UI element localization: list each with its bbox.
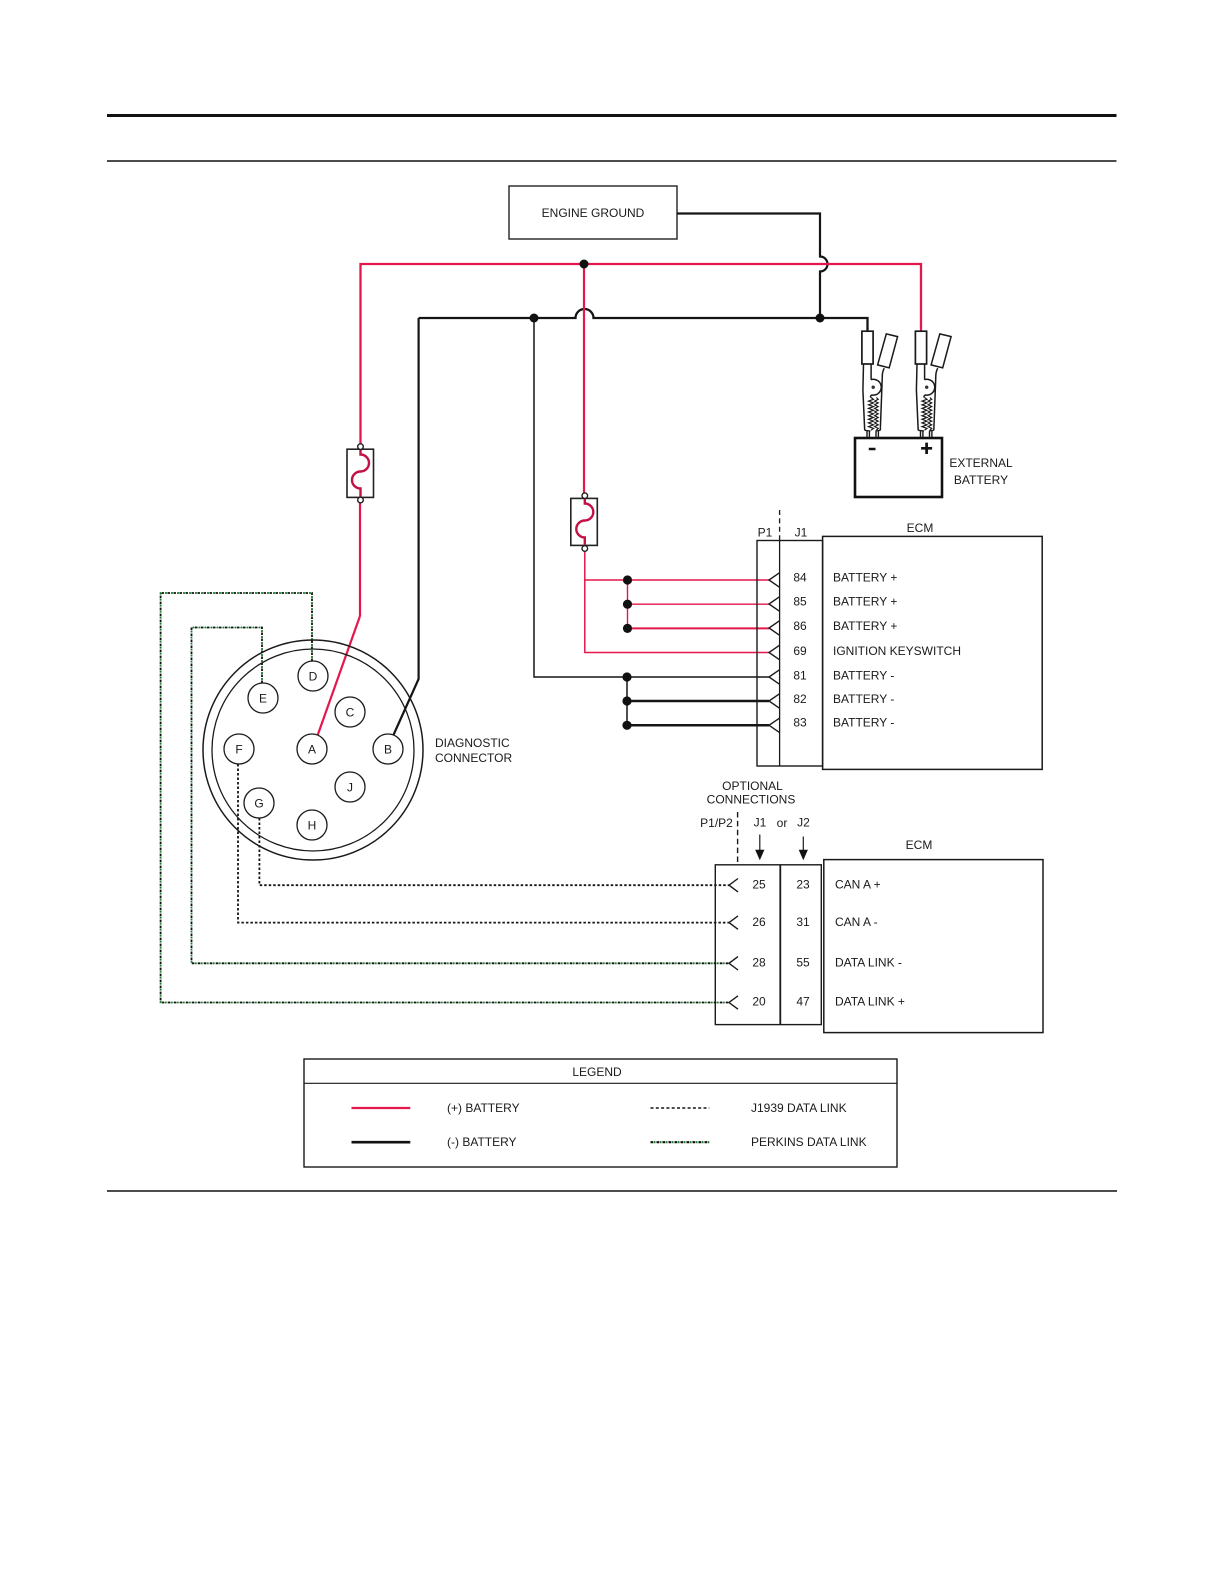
svg-text:ENGINE GROUND: ENGINE GROUND — [542, 206, 645, 220]
svg-text:86: 86 — [793, 619, 807, 633]
svg-text:DIAGNOSTIC: DIAGNOSTIC — [435, 736, 510, 750]
svg-text:(-) BATTERY: (-) BATTERY — [447, 1135, 517, 1149]
svg-text:85: 85 — [793, 595, 807, 609]
svg-text:69: 69 — [793, 644, 807, 658]
svg-text:J1: J1 — [754, 816, 767, 830]
svg-text:A: A — [308, 743, 316, 757]
svg-text:DATA LINK +: DATA LINK + — [835, 995, 905, 1009]
svg-text:BATTERY: BATTERY — [954, 473, 1008, 487]
svg-text:82: 82 — [793, 692, 807, 706]
svg-text:25: 25 — [752, 877, 766, 891]
svg-text:EXTERNAL: EXTERNAL — [949, 456, 1013, 470]
svg-text:J2: J2 — [797, 816, 810, 830]
svg-text:BATTERY -: BATTERY - — [833, 692, 894, 706]
svg-text:D: D — [309, 670, 318, 684]
svg-text:BATTERY +: BATTERY + — [833, 595, 897, 609]
svg-text:(+) BATTERY: (+) BATTERY — [447, 1101, 520, 1115]
svg-text:84: 84 — [793, 571, 807, 585]
svg-text:C: C — [346, 706, 355, 720]
svg-text:CONNECTOR: CONNECTOR — [435, 751, 512, 765]
svg-text:LEGEND: LEGEND — [572, 1065, 622, 1079]
svg-text:or: or — [777, 816, 788, 830]
svg-text:B: B — [384, 743, 392, 757]
svg-text:23: 23 — [796, 877, 810, 891]
svg-text:BATTERY +: BATTERY + — [833, 571, 897, 585]
svg-text:81: 81 — [793, 669, 807, 683]
svg-text:BATTERY -: BATTERY - — [833, 716, 894, 730]
svg-text:ECM: ECM — [906, 838, 933, 852]
svg-text:DATA LINK -: DATA LINK - — [835, 956, 902, 970]
svg-text:BATTERY -: BATTERY - — [833, 669, 894, 683]
svg-text:83: 83 — [793, 716, 807, 730]
svg-text:P1/P2: P1/P2 — [700, 816, 733, 830]
svg-text:P1: P1 — [758, 526, 773, 540]
svg-text:J1939 DATA LINK: J1939 DATA LINK — [751, 1101, 847, 1115]
svg-text:OPTIONAL: OPTIONAL — [722, 779, 783, 793]
svg-text:E: E — [259, 692, 267, 706]
svg-text:28: 28 — [752, 956, 766, 970]
svg-text:26: 26 — [752, 915, 766, 929]
svg-text:31: 31 — [796, 915, 810, 929]
svg-text:J1: J1 — [795, 526, 808, 540]
svg-text:F: F — [235, 743, 242, 757]
svg-text:47: 47 — [796, 995, 810, 1009]
svg-text:BATTERY +: BATTERY + — [833, 619, 897, 633]
svg-text:ECM: ECM — [907, 521, 934, 535]
svg-text:G: G — [254, 797, 263, 811]
svg-text:CAN A +: CAN A + — [835, 877, 881, 891]
svg-text:PERKINS DATA LINK: PERKINS DATA LINK — [751, 1135, 867, 1149]
svg-text:IGNITION KEYSWITCH: IGNITION KEYSWITCH — [833, 644, 961, 658]
svg-text:CAN A -: CAN A - — [835, 915, 878, 929]
svg-text:H: H — [308, 819, 317, 833]
svg-text:CONNECTIONS: CONNECTIONS — [707, 793, 796, 807]
svg-text:20: 20 — [752, 995, 766, 1009]
svg-text:55: 55 — [796, 956, 810, 970]
svg-text:J: J — [347, 781, 353, 795]
